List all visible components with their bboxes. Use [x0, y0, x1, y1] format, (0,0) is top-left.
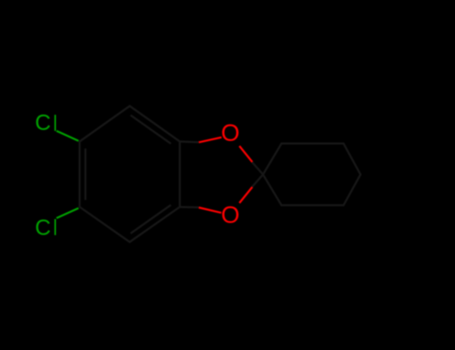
double bond inner line bottom-right edge C4=C3a	[131, 205, 171, 234]
benzene ring C4-C5-C6-C7-C7a-C3a	[80, 106, 361, 242]
bond O1-C2 red half	[239, 146, 252, 162]
bond O2-C2 red half	[239, 187, 252, 203]
wire C7a to O1 carbon half	[180, 141, 199, 144]
wire C3a to O2 carbon half	[180, 206, 199, 208]
double bond inner line top-right edge C7=C7a	[131, 115, 171, 144]
atom label O2 (bottom)	[221, 204, 240, 228]
wire O2 to spiro C2 carbon half	[252, 175, 263, 188]
bond C6-Cl green half	[57, 131, 79, 141]
bond C5-Cl green half	[57, 208, 79, 218]
atom label Cl (bottom, C5)	[35, 217, 51, 239]
wire O1 to spiro C2 carbon half	[252, 162, 263, 175]
atom label O1 (top)	[221, 122, 240, 146]
bond C7a-O1 red half	[199, 137, 222, 142]
atom label Cl letter l stroke (bottom)	[54, 219, 56, 235]
cyclohexane ring spiro at C2	[263, 144, 361, 206]
double bond inner line left edge C5=C6	[84, 149, 86, 201]
atom label Cl letter l stroke (top)	[54, 115, 56, 131]
atom label Cl (top, C6)	[35, 112, 51, 134]
bond C3a-O2 red half	[199, 208, 222, 213]
